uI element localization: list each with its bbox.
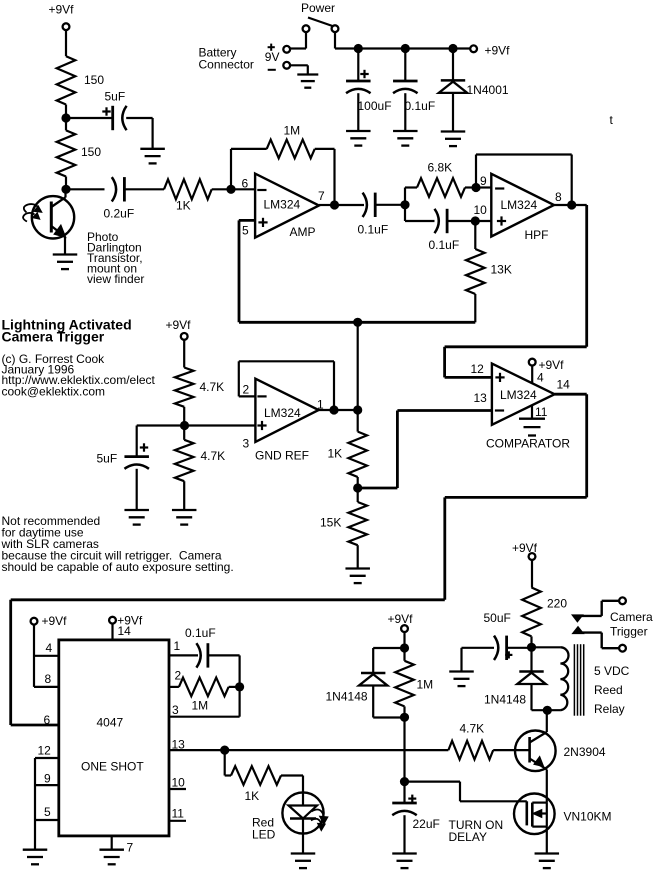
svg-text:1N4148: 1N4148	[326, 690, 368, 704]
wire	[137, 424, 185, 426]
svg-text:Reed: Reed	[594, 683, 623, 697]
wire to 1N4148	[373, 647, 404, 649]
svg-text:GND REF: GND REF	[255, 449, 309, 463]
HPF feedback loop	[475, 155, 477, 188]
LED light arrows	[312, 810, 324, 819]
diode D 1N4001	[452, 49, 454, 81]
svg-text:+9Vf: +9Vf	[539, 358, 565, 372]
resistor R 150 upper	[57, 56, 76, 104]
node gnd ref output	[353, 405, 362, 414]
ground pin 7	[99, 849, 124, 851]
wire	[126, 117, 152, 119]
wire up to 6.8K	[404, 188, 406, 205]
wire	[403, 632, 405, 661]
svg-text:1K: 1K	[176, 199, 191, 213]
svg-text:4.7K: 4.7K	[200, 380, 225, 394]
wire comparator output trigger	[555, 393, 587, 396]
capacitor C 0.2uF	[66, 188, 105, 190]
resistor R 1M feedback	[267, 140, 315, 159]
photo arrows into transistor	[24, 204, 38, 212]
ground phototransistor	[53, 253, 78, 255]
capacitor 5uF	[111, 106, 114, 130]
svg-text:0.1uF: 0.1uF	[358, 223, 389, 237]
node HPF pin10	[471, 216, 480, 225]
svg-text:7: 7	[127, 841, 134, 855]
node rail 1N4001	[448, 44, 457, 53]
svg-text:1N4001: 1N4001	[467, 83, 509, 97]
svg-text:AMP: AMP	[290, 225, 316, 239]
svg-text:LED: LED	[252, 827, 276, 841]
wire	[66, 117, 113, 119]
wire HPF out to comparator pin12	[585, 205, 588, 347]
resistor R 150 lower	[65, 118, 67, 130]
wire	[212, 188, 231, 190]
svg-text:Camera Trigger: Camera Trigger	[2, 329, 105, 345]
svg-text:2: 2	[175, 669, 182, 683]
node pin13 LED branch	[220, 746, 229, 755]
svg-text:10: 10	[172, 776, 186, 790]
svg-text:12: 12	[38, 744, 52, 758]
pin 11 stub	[169, 820, 186, 822]
pin 4 stub	[34, 655, 59, 657]
pin 14 wire	[111, 624, 113, 640]
node AMP output	[330, 200, 339, 209]
terminal +9Vf relay	[529, 553, 536, 560]
terminal +9Vf gnd ref	[181, 333, 188, 340]
diode D 1N4148 relay	[530, 647, 532, 671]
node relay bottom	[543, 706, 552, 715]
svg-text:+9Vf: +9Vf	[49, 3, 75, 17]
pin 12 stub	[35, 757, 59, 759]
wire HPF output	[554, 204, 587, 206]
svg-text:should be capable of auto expo: should be capable of auto exposure setti…	[2, 560, 234, 574]
op-amp U3 GND REF LM324	[255, 379, 318, 442]
wire	[231, 188, 255, 190]
capacitor C 100uF	[357, 49, 359, 82]
svg-text:Trigger: Trigger	[610, 624, 648, 638]
svg-text:1K: 1K	[245, 789, 260, 803]
wire pins 12 9 5 ground tie	[34, 758, 36, 850]
svg-text:150: 150	[81, 145, 101, 159]
wire	[33, 625, 35, 687]
svg-text:1M: 1M	[417, 678, 434, 692]
svg-text:0.2uF: 0.2uF	[104, 207, 135, 221]
wire AMP output	[319, 204, 335, 206]
svg-text:8: 8	[45, 672, 52, 686]
svg-text:5uF: 5uF	[97, 452, 118, 466]
wire	[208, 654, 240, 656]
resistor R 220	[522, 588, 541, 637]
wire	[290, 64, 308, 66]
ground 5uF top	[140, 148, 165, 150]
wire	[305, 32, 307, 49]
svg-text:1N4148: 1N4148	[484, 693, 526, 707]
op-amp U4 comparator LM324	[492, 364, 555, 425]
resistor R 1K input	[164, 179, 212, 199]
svg-text:5: 5	[242, 224, 249, 238]
svg-text:1K: 1K	[328, 447, 343, 461]
terminal +9Vf comparator	[529, 359, 536, 366]
wire virtual ground reference line	[239, 321, 475, 324]
wire	[372, 686, 374, 718]
svg-text:9: 9	[44, 772, 51, 786]
capacitor C 0.1uF HPF	[435, 209, 439, 233]
capacitor C 22uF	[403, 782, 405, 803]
svg-text:HPF: HPF	[525, 228, 549, 242]
wire	[375, 204, 405, 206]
op-amp U1 AMP LM324	[255, 174, 319, 238]
wire	[546, 827, 548, 854]
svg-text:4.7K: 4.7K	[460, 722, 485, 736]
wire	[546, 770, 548, 803]
svg-text:14: 14	[118, 624, 132, 638]
node delay top	[400, 643, 409, 652]
svg-text:6: 6	[44, 713, 51, 727]
gnd ref feedback	[239, 395, 256, 397]
ground comparator pin11	[531, 406, 533, 419]
svg-text:Camera: Camera	[610, 610, 653, 624]
svg-text:ONE SHOT: ONE SHOT	[81, 760, 144, 774]
ground battery	[297, 73, 318, 75]
node 4.7K divider	[180, 421, 189, 430]
svg-text:7: 7	[318, 189, 325, 203]
pin 8 stub	[34, 686, 59, 688]
svg-text:11: 11	[535, 405, 548, 419]
pin 1 wire	[169, 654, 198, 656]
svg-text:Connector: Connector	[199, 57, 254, 71]
pin 13 output wire	[169, 749, 448, 751]
ground 15K	[345, 567, 370, 569]
svg-text:3: 3	[243, 437, 250, 451]
capacitor C 50uF	[462, 647, 495, 649]
resistor R 1M oneshot	[179, 678, 229, 697]
relay coil	[532, 646, 561, 648]
capacitor C 0.1uF rail	[404, 49, 406, 82]
resistor R 4.7K upper	[175, 368, 194, 407]
svg-text:6: 6	[242, 177, 249, 191]
svg-text:+9Vf: +9Vf	[485, 44, 511, 58]
ground 5uF gnd ref	[124, 509, 149, 511]
ground 0.1uF rail	[393, 130, 418, 132]
node delay mid	[400, 713, 409, 722]
IC U5 4047 one shot box	[59, 640, 169, 836]
node AMP inverting input	[226, 185, 235, 194]
svg-text:+9Vf: +9Vf	[512, 541, 538, 555]
svg-text:14: 14	[557, 378, 571, 392]
svg-text:Relay: Relay	[594, 702, 625, 716]
capacitor C 0.1uF oneshot	[196, 643, 200, 667]
resistor R 1K LED	[231, 766, 281, 785]
svg-text:4047: 4047	[97, 716, 124, 730]
svg-text:+9Vf: +9Vf	[388, 612, 414, 626]
camera trigger switch	[602, 600, 620, 602]
svg-text:1M: 1M	[284, 124, 301, 138]
svg-text:13K: 13K	[491, 263, 512, 277]
capacitor 5uF plus sign	[102, 110, 110, 112]
svg-text:LM324: LM324	[500, 388, 537, 402]
node oneshot timing	[235, 682, 244, 691]
wire to gate	[405, 780, 461, 782]
feedback wire up	[230, 149, 232, 189]
svg-text:13: 13	[172, 738, 186, 752]
svg-text:COMPARATOR: COMPARATOR	[486, 437, 570, 451]
svg-text:22uF: 22uF	[413, 817, 440, 831]
wire	[531, 365, 533, 383]
ground 100uF	[346, 130, 371, 132]
pin 2 wire	[169, 686, 179, 688]
node reference line	[353, 318, 362, 327]
wire crossing pin13	[403, 717, 405, 781]
svg-text:LM324: LM324	[264, 198, 301, 212]
svg-text:11: 11	[172, 807, 185, 821]
ground 4.7K	[172, 509, 197, 511]
capacitor C 5uF gnd ref	[136, 426, 138, 457]
wire	[465, 186, 476, 188]
capacitor C 5uF gnd ref plus	[140, 446, 148, 448]
wire	[460, 648, 462, 672]
svg-text:2: 2	[243, 383, 250, 397]
wire	[183, 340, 185, 368]
svg-text:220: 220	[547, 597, 567, 611]
pin 10 stub	[169, 788, 186, 790]
ground 1N4001	[441, 130, 466, 132]
svg-text:view finder: view finder	[87, 272, 144, 286]
svg-text:0.1uF: 0.1uF	[405, 99, 436, 113]
svg-text:0.1uF: 0.1uF	[185, 626, 216, 640]
ground LED	[291, 852, 316, 854]
terminal +9Vf top-left	[63, 23, 70, 30]
svg-text:9V: 9V	[265, 50, 280, 64]
wire	[532, 709, 561, 711]
node junction phototransistor	[61, 185, 70, 194]
resistor R 1K divider	[348, 432, 367, 477]
node relay top	[527, 643, 536, 652]
wire gnd ref output	[319, 409, 358, 411]
svg-text:13: 13	[474, 391, 488, 405]
node HPF input	[400, 200, 409, 209]
ground 50uF	[449, 670, 474, 672]
svg-text:4: 4	[537, 371, 544, 385]
LED D red	[282, 792, 323, 833]
svg-text:1M: 1M	[192, 699, 209, 713]
svg-text:LM324: LM324	[501, 198, 538, 212]
terminal +9Vf delay	[401, 625, 408, 632]
svg-text:100uF: 100uF	[358, 99, 392, 113]
wire	[447, 220, 475, 222]
svg-text:2N3904: 2N3904	[564, 745, 606, 759]
ground VN10KM	[535, 852, 560, 854]
terminal +9Vf pin4 pin8	[31, 618, 38, 625]
resistor R 6.8K	[417, 178, 465, 197]
svg-text:5uF: 5uF	[105, 90, 126, 104]
wire	[124, 188, 164, 190]
terminal +9Vf pin14	[109, 617, 116, 624]
svg-text:4: 4	[46, 641, 53, 655]
svg-text:+9Vf: +9Vf	[166, 318, 192, 332]
svg-text:0.1uF: 0.1uF	[429, 238, 460, 252]
diode D 1N4148 delay	[361, 672, 385, 675]
transistor Q photo darlington	[32, 196, 74, 238]
resistor R 4.7K lower	[183, 426, 185, 440]
wire	[281, 774, 303, 776]
battery connector terminals	[283, 46, 290, 53]
node rail 0.1uF	[401, 44, 410, 53]
wire	[315, 148, 335, 150]
wire pin5 stub	[239, 219, 255, 222]
node delay gate	[400, 777, 409, 786]
svg-text:Power: Power	[301, 1, 335, 15]
resistor R 4.7K base	[448, 741, 493, 760]
pin 7 wire	[111, 836, 113, 850]
svg-text:5 VDC: 5 VDC	[594, 664, 630, 678]
pin 3 wire	[169, 716, 240, 718]
svg-text:5: 5	[44, 805, 51, 819]
wire	[493, 749, 529, 751]
node 1K 15K junction	[353, 483, 362, 492]
svg-text:VN10KM: VN10KM	[564, 810, 612, 824]
wire to reference line	[357, 322, 359, 431]
svg-text:3: 3	[172, 703, 179, 717]
wire	[531, 560, 533, 588]
capacitor C 0.1uF coupling	[363, 193, 367, 217]
svg-text:8: 8	[555, 190, 562, 204]
wire to comparator pin13	[358, 487, 398, 490]
resistor R 15K	[348, 502, 367, 545]
svg-text:4.7K: 4.7K	[201, 449, 226, 463]
svg-text:cook@eklektix.com: cook@eklektix.com	[2, 385, 106, 399]
svg-text:50uF: 50uF	[484, 611, 511, 625]
svg-text:12: 12	[471, 362, 485, 376]
wire	[65, 30, 67, 56]
wire down to 0.1uF	[404, 205, 406, 221]
ground pins 12 9 5	[23, 849, 48, 851]
node rail 100uF	[354, 44, 363, 53]
capacitor C 22uF plus	[408, 797, 416, 799]
svg-text:DELAY: DELAY	[449, 830, 487, 844]
wire	[546, 710, 548, 732]
svg-text:150: 150	[84, 73, 104, 87]
resistor R 1M delay	[395, 661, 414, 707]
svg-text:15K: 15K	[320, 516, 341, 530]
node HPF pin9	[471, 183, 480, 192]
resistor R 13K	[474, 221, 476, 249]
transistor Q 2N3904	[515, 731, 556, 772]
pin 9 stub	[35, 784, 59, 786]
wire	[224, 750, 226, 775]
wire	[64, 237, 66, 255]
svg-text:6.8K: 6.8K	[428, 161, 453, 175]
op-amp U2 HPF LM324	[491, 174, 554, 237]
wire	[65, 105, 67, 119]
node gnd ref feedback	[329, 405, 338, 414]
svg-text:10: 10	[474, 203, 488, 217]
node HPF output	[567, 200, 576, 209]
pin 5 stub	[35, 819, 59, 821]
terminal +9Vf rail	[470, 45, 477, 52]
relay reed bars	[573, 644, 575, 716]
node junction 150/5uF	[61, 113, 70, 122]
svg-text:LM324: LM324	[264, 406, 301, 420]
svg-text:1: 1	[174, 639, 181, 653]
svg-text:+9Vf: +9Vf	[42, 614, 68, 628]
wire +9V rail	[335, 47, 471, 49]
ground 22uF	[392, 852, 417, 854]
svg-text:9: 9	[480, 174, 487, 188]
transistor Q VN10KM mosfet	[514, 794, 555, 835]
